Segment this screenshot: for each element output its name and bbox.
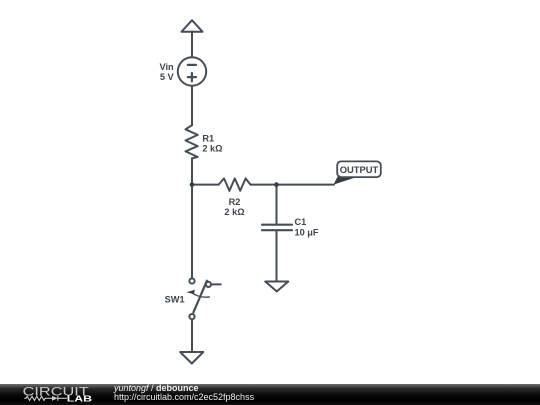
wire Vin to R1 xyxy=(191,86,193,126)
svg-text:C1: C1 xyxy=(295,217,307,227)
wire VCC to Vin xyxy=(191,32,193,58)
wire node A to R2 xyxy=(192,184,219,186)
svg-text:R1: R1 xyxy=(202,134,214,144)
wire R2 to node B and OUTPUT xyxy=(251,184,335,186)
svg-text:R2: R2 xyxy=(229,197,241,207)
resistor R1 xyxy=(186,125,198,158)
svg-text:LAB: LAB xyxy=(67,395,93,404)
logo diode symbol xyxy=(52,396,58,401)
capacitor C1 plates xyxy=(262,225,292,231)
svg-text:10 μF: 10 μF xyxy=(295,228,319,238)
OUTPUT flag box xyxy=(337,161,381,177)
resistor R2 xyxy=(219,178,251,190)
switch SW1 throw terminal circle xyxy=(206,282,211,287)
CircuitLab logo xyxy=(0,384,110,405)
wire C1 to ground xyxy=(276,231,278,281)
wire node B to C1 xyxy=(276,185,278,224)
ground under SW1 xyxy=(180,352,203,364)
wire R1 to node A and switch xyxy=(191,158,193,278)
switch SW1 arrow head xyxy=(187,290,195,295)
OUTPUT flag pointer xyxy=(334,177,357,185)
footer bar xyxy=(0,384,540,405)
svg-text:2 kΩ: 2 kΩ xyxy=(202,144,222,154)
VCC power symbol xyxy=(182,20,203,32)
switch SW1 actuation arc xyxy=(191,292,210,297)
logo resistor zigzag xyxy=(24,396,52,400)
svg-text:Vin: Vin xyxy=(160,62,175,72)
Vin minus sign xyxy=(188,64,196,66)
ground under C1 xyxy=(265,282,288,292)
svg-text:OUTPUT: OUTPUT xyxy=(340,164,379,175)
junction node A dot xyxy=(190,182,195,187)
voltage source V1 Vin circle xyxy=(178,57,206,85)
svg-text:SW1: SW1 xyxy=(165,295,185,305)
switch SW1 right stub wire xyxy=(211,283,221,285)
switch SW1 lever xyxy=(193,281,207,313)
Vin plus sign xyxy=(188,73,196,81)
junction node B dot xyxy=(274,182,279,187)
switch SW1 bottom terminal circle xyxy=(189,314,194,319)
switch SW1 top terminal circle xyxy=(189,278,194,283)
svg-text:5 V: 5 V xyxy=(160,72,175,82)
wire SW1 to ground xyxy=(191,319,193,352)
svg-text:2 kΩ: 2 kΩ xyxy=(224,207,244,217)
